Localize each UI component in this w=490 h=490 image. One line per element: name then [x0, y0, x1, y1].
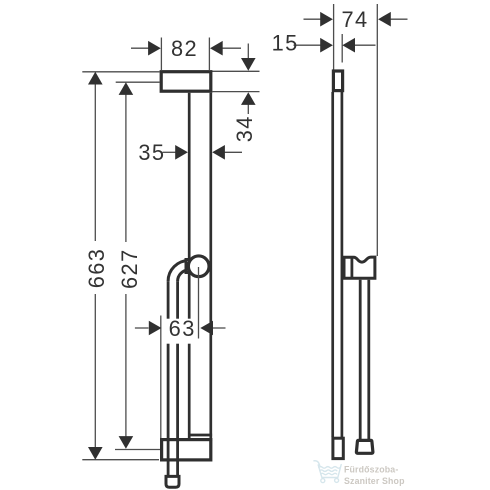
svg-text:63: 63	[169, 316, 196, 341]
svg-text:663: 663	[84, 248, 109, 289]
svg-text:35: 35	[138, 140, 165, 165]
svg-text:Fürdőszoba-: Fürdőszoba-	[344, 465, 398, 475]
svg-text:15: 15	[272, 31, 299, 56]
svg-text:627: 627	[117, 248, 142, 289]
svg-text:74: 74	[341, 7, 368, 32]
svg-text:82: 82	[171, 36, 198, 61]
svg-text:34: 34	[232, 115, 257, 142]
svg-text:Szaniter Shop: Szaniter Shop	[344, 476, 405, 486]
